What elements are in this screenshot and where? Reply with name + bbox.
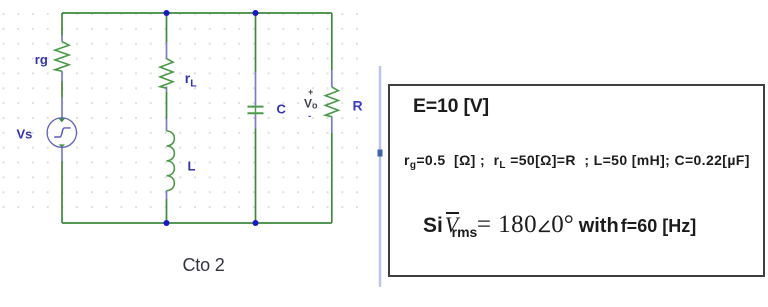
svg-text:+: + (308, 87, 313, 97)
resistor rL (160, 59, 173, 89)
svg-text:rg: rg (35, 52, 48, 67)
wire middle branch segments (166, 13, 168, 223)
wire top rail (62, 12, 332, 14)
divider light blue line (379, 66, 381, 287)
pin stubs resistor rL (166, 42, 168, 92)
node junction bottom A (164, 220, 170, 226)
wire left branch mid segment (61, 81, 63, 98)
source Vs top pin arrow (58, 118, 65, 122)
source Vs bottom pin arrow (59, 144, 65, 147)
resistor R (325, 87, 338, 117)
svg-text:C: C (277, 102, 287, 117)
node junction top B (253, 10, 259, 16)
info text line 3: Si Vrms = 180 angle 0 with f=60 [Hz] (423, 211, 696, 241)
pin stubs resistor rg (61, 36, 63, 118)
info box frame (388, 84, 765, 277)
pin stubs source Vs (61, 147, 63, 161)
capacitor C plates (248, 107, 264, 114)
wire left branch lower (61, 161, 63, 223)
divider handle mark (378, 150, 383, 157)
pin stubs inductor L (166, 119, 168, 200)
wire bottom rail (62, 222, 332, 224)
wire right branch segments (331, 13, 333, 223)
svg-text:L: L (188, 159, 196, 174)
info text line 1: E=10 [V] (413, 95, 489, 118)
svg-text:Vs: Vs (17, 126, 33, 141)
source Vs step waveform (54, 128, 70, 137)
source Vs circle (47, 118, 76, 147)
svg-text:Cto 2: Cto 2 (183, 255, 225, 275)
wire capacitor branch segments (255, 13, 257, 223)
pin stubs resistor R (331, 70, 333, 133)
node junction bottom B (253, 220, 259, 226)
node junction top A (164, 10, 170, 16)
resistor rg (55, 42, 69, 72)
info text line 2: component values (404, 152, 750, 171)
svg-text:R: R (353, 98, 363, 114)
wire left branch upper (61, 13, 63, 36)
pin stubs capacitor C (255, 72, 257, 129)
capacitor C center tick (255, 107, 257, 114)
svg-text:-: - (308, 111, 311, 122)
inductor L coil (167, 131, 175, 191)
